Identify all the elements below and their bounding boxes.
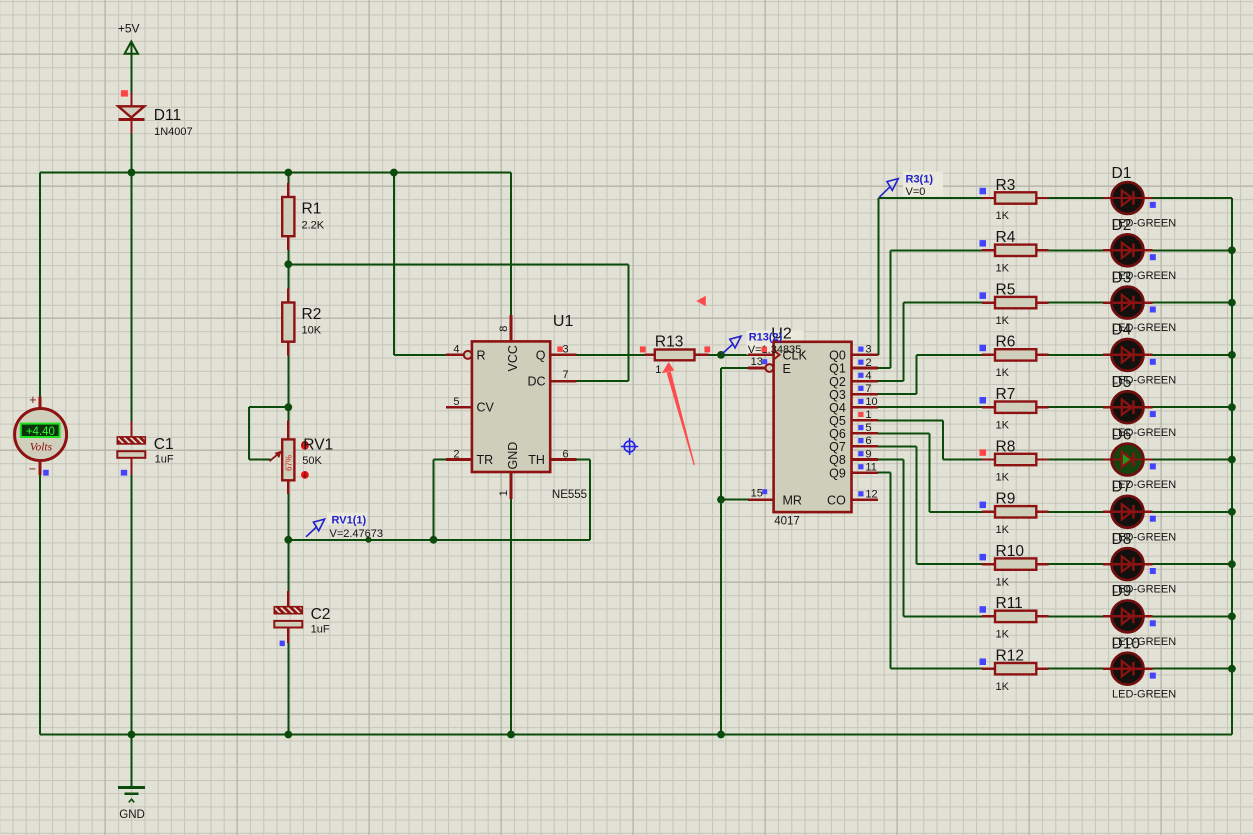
marker R8 [980,449,987,456]
junction right rail row D5 [1228,403,1236,411]
wire MR horizontal [721,499,748,501]
junction top rail / R1 [284,169,292,177]
red annotation arrow [662,362,695,466]
LED D5 [1103,374,1176,439]
wire D7 to right rail [1152,511,1232,513]
svg-text:CV: CV [477,401,495,415]
wire R6 to D4 [1049,354,1104,356]
LED D6 [1103,426,1176,491]
svg-text:GND: GND [119,809,145,821]
svg-text:RV1(1): RV1(1) [332,514,367,526]
capacitor C2 [274,591,330,643]
junction R13 / CLK probe [717,351,725,359]
wire TH branch vertical [589,460,591,540]
marker blue D3 [1150,307,1156,313]
junction E-MR line [717,496,725,504]
wire bottom rail [40,734,1232,736]
svg-text:8: 8 [498,326,510,332]
svg-text:Q9: Q9 [829,466,846,480]
svg-text:D9: D9 [1112,583,1132,600]
svg-text:2: 2 [453,449,459,461]
svg-text:2: 2 [865,357,871,369]
resistor R4 [982,229,1048,274]
marker U2 Q3 [858,386,863,391]
probe R13(2) background [747,331,804,355]
svg-text:12: 12 [865,488,877,500]
wire D8 to right rail [1152,563,1232,565]
svg-text:GND: GND [506,442,520,470]
junction right rail row D4 [1228,351,1236,359]
wire D6 to right rail [1152,459,1232,461]
svg-text:50K: 50K [302,455,322,467]
svg-text:D10: D10 [1112,636,1141,653]
svg-text:R12: R12 [996,648,1024,665]
marker U2 Q7 [858,438,863,443]
marker blue D2 [1150,254,1156,260]
cursor origin marker [621,438,638,455]
junction right rail row D8 [1228,560,1236,568]
wire C2 bottom to bottom rail [287,643,289,734]
wire right rail [1231,198,1233,735]
wire U2 Q5 to R8 [878,419,943,421]
wire D9 to right rail [1152,615,1232,617]
wire D11 to top rail [131,134,133,173]
marker blue D6 [1150,463,1156,469]
svg-text:1K: 1K [996,367,1010,379]
svg-text:R10: R10 [996,543,1025,560]
wire D2 to right rail [1152,249,1232,251]
wire R8 to D6 [1049,459,1104,461]
wire R3 to D1 [1049,197,1104,199]
marker blue D5 [1150,411,1156,417]
svg-text:D2: D2 [1112,217,1132,234]
svg-text:+4.40: +4.40 [26,426,55,438]
svg-text:4: 4 [865,370,871,382]
svg-text:R11: R11 [996,595,1023,612]
svg-text:R: R [477,348,486,362]
svg-text:D8: D8 [1112,531,1132,548]
svg-text:13: 13 [751,356,763,368]
svg-text:11: 11 [865,461,876,473]
marker R7 [980,397,987,404]
resistor R12 [982,648,1048,693]
counter U2 4017 [748,325,878,527]
wire RV1 bottom to C2 junction [287,494,289,540]
svg-text:Q7: Q7 [829,440,846,454]
svg-text:R4: R4 [996,229,1016,246]
svg-text:1: 1 [498,490,510,496]
svg-text:Q0: Q0 [829,349,846,363]
svg-text:1: 1 [655,364,661,376]
svg-text:Volts: Volts [30,441,53,453]
wire R7 to D5 [1049,406,1104,408]
svg-text:10: 10 [865,396,877,408]
marker blue U2 pin13 [762,359,767,364]
svg-text:VCC: VCC [506,345,520,371]
marker red U1 pin3 [557,346,563,352]
junction right rail row D9 [1228,613,1236,621]
marker blue D10 [1150,673,1156,679]
svg-text:1K: 1K [996,419,1010,431]
junction bottom rail / GND [128,731,136,739]
junction right rail row D10 [1228,665,1236,673]
junction right rail row D2 [1228,246,1236,254]
svg-text:D5: D5 [1112,374,1132,391]
junction R1-R2 / DC line [284,260,292,268]
marker R9 [980,502,987,509]
svg-text:Q4: Q4 [829,401,846,415]
wire E-MR vertical to bottom rail [720,368,722,735]
wire U2 Q9 to R12 [878,472,891,474]
marker R12 [980,659,987,666]
wire left rail lower [39,475,41,735]
wire U2 Q7 to R10 [878,445,917,447]
svg-text:1uF: 1uF [311,623,330,635]
svg-text:D1: D1 [1112,165,1132,182]
LED D1 [1103,165,1176,230]
wire R1-R2 junction to DC branch [288,263,628,265]
svg-text:+5V: +5V [118,21,140,35]
svg-text:C2: C2 [311,606,331,623]
resistor R1 [282,183,325,250]
svg-text:E: E [783,362,791,376]
resistor R9 [982,491,1048,536]
svg-text:R6: R6 [996,334,1016,351]
probe dot RV1(1) [366,537,372,543]
resistor R8 [982,438,1048,483]
resistor R10 [982,543,1048,588]
svg-text:R3(1): R3(1) [906,174,934,186]
svg-text:Q2: Q2 [829,375,846,389]
svg-text:1K: 1K [996,681,1010,693]
wire R1 bottom to junction [287,250,289,264]
junction bottom rail / U1 GND [507,731,515,739]
svg-text:1K: 1K [996,576,1010,588]
svg-text:R1: R1 [302,200,322,217]
svg-text:Q5: Q5 [829,414,846,428]
resistor R11 [982,595,1048,640]
LED D4 [1103,322,1176,387]
wire U2 Q2 to R5 [878,380,904,382]
svg-text:7: 7 [865,383,871,395]
wire D1 to right rail [1152,197,1232,199]
svg-text:R7: R7 [996,386,1016,403]
svg-text:DC: DC [527,375,545,389]
svg-text:RV1: RV1 [303,436,333,453]
wire +5V to D11 [130,41,132,92]
svg-text:R2: R2 [302,306,322,323]
svg-text:D6: D6 [1112,426,1132,443]
svg-text:NE555: NE555 [552,489,587,501]
marker U2 Q9 [858,464,863,469]
marker R5 [980,292,987,299]
resistor R6 [982,334,1048,379]
junction top rail / reset line [390,169,398,177]
svg-text:9: 9 [865,448,871,460]
svg-text:2.2K: 2.2K [302,220,325,232]
resistor R7 [982,386,1048,431]
svg-text:4017: 4017 [774,515,800,527]
marker R11 [980,606,987,613]
wire U1 pin1 GND to bottom rail [510,499,512,735]
wire R2 bottom to RV1 junction [287,356,289,408]
svg-text:R9: R9 [996,491,1016,508]
svg-text:Q3: Q3 [829,388,846,402]
LED D10 [1103,636,1176,701]
svg-text:6: 6 [563,449,569,461]
svg-text:D4: D4 [1112,322,1132,339]
junction bottom rail / C2 [284,731,292,739]
wire R5 to D3 [1049,302,1104,304]
resistor R3 [982,177,1048,222]
svg-text:7: 7 [563,369,569,381]
svg-text:CO: CO [827,494,846,508]
marker blue C1 [121,470,127,476]
junction top rail / D11 [128,169,136,177]
LED D2 [1103,217,1176,282]
wire R13 to CLK junction [709,354,748,356]
junction right rail row D6 [1228,456,1236,464]
marker U2 Q0 [858,347,863,352]
diode D11 [118,92,192,138]
wire top rail [40,172,511,174]
wire U1 pin8 VCC [510,173,512,316]
svg-text:1K: 1K [996,629,1010,641]
marker red D11 [121,90,128,96]
marker U2 Q2 [858,373,863,378]
wire R12 to D10 [1049,668,1104,670]
svg-text:R3: R3 [996,177,1016,194]
svg-text:1K: 1K [996,210,1010,222]
marker R3 [980,188,987,195]
junction RV1 bottom / C2 [284,536,292,544]
marker R4 [980,240,987,247]
wire DC branch to U1 pin7 [576,380,628,382]
svg-text:10K: 10K [302,325,322,337]
svg-text:Q8: Q8 [829,453,846,467]
op-amp timer U1 NE555 [446,313,587,501]
marker blue D8 [1150,568,1156,574]
svg-text:3: 3 [563,344,569,356]
marker blue voltmeter [43,470,49,476]
voltage probe R3(1) [879,172,943,199]
power +5V symbol [118,21,140,54]
svg-text:15: 15 [751,488,763,500]
wire U2 Q1 to R4 [878,367,891,369]
svg-text:R8: R8 [996,438,1016,455]
wire reset line to U1 pin4 [394,354,446,356]
marker U2 Q1 [858,360,863,365]
wire C2 junction to C2 top [287,540,289,591]
svg-text:LED-GREEN: LED-GREEN [1112,688,1176,700]
wire R1 top [287,173,289,184]
wire D3 to right rail [1152,302,1232,304]
wire U2 Q6 to R9 [878,432,930,434]
wire GND stem [131,735,133,788]
junction right rail row D3 [1228,299,1236,307]
junction RV1 top [284,403,292,411]
svg-text:U1: U1 [553,313,574,330]
wire reset line vertical [393,173,395,355]
wire U1 pin2 TR branch [434,459,446,461]
marker blue D4 [1150,359,1156,365]
svg-text:MR: MR [783,494,802,508]
voltage probe R13(2) [723,332,805,357]
marker red R13 probe value [762,347,768,353]
LED D3 [1103,269,1176,334]
svg-text:1K: 1K [996,263,1010,275]
voltage probe RV1(1) [306,513,383,540]
svg-text:5: 5 [865,422,871,434]
resistor R2 [282,289,322,356]
marker U2 Q6 [858,425,863,430]
svg-text:Q: Q [536,348,546,362]
svg-text:D11: D11 [154,107,181,124]
ground symbol [118,787,145,821]
marker blue U2 pin15 [762,489,767,494]
marker R6 [980,345,987,352]
marker blue C2 [280,641,285,647]
svg-text:R5: R5 [996,281,1016,298]
wire U1 pin3 to R13 [576,354,644,356]
wire left rail upper [39,173,41,397]
svg-text:67%: 67% [284,455,293,471]
resistor R13 [645,334,709,376]
wire U2 Q8 to R11 [878,459,904,461]
junction TR branch [430,536,438,544]
svg-text:1K: 1K [996,315,1010,327]
wire R11 to D9 [1049,615,1104,617]
wire U2 Q0 to R3 [877,354,880,356]
wire RV1 to TH horizontal [288,539,590,541]
wire R4 to D2 [1049,249,1104,251]
svg-text:V=1.34835.: V=1.34835. [748,344,805,356]
voltmeter +4.40 [15,393,67,476]
svg-text:TH: TH [528,453,545,467]
wire DC branch vertical [627,264,629,381]
marker red R13 right [704,346,710,352]
svg-text:TR: TR [477,453,494,467]
svg-text:Q6: Q6 [829,427,846,441]
wire U2 Q3 to R6 [878,393,917,395]
LED D9 [1103,583,1176,648]
svg-text:1N4007: 1N4007 [154,126,193,138]
LED D7 [1103,479,1176,544]
svg-text:V=2.47673: V=2.47673 [330,528,384,540]
marker blue D9 [1150,620,1156,626]
svg-text:1: 1 [865,409,871,421]
wire R9 to D7 [1049,511,1104,513]
svg-text:−: − [29,462,36,476]
marker U2 Q5 [858,412,863,417]
svg-text:5: 5 [453,396,459,408]
svg-text:Q1: Q1 [829,362,846,376]
wire R10 to D8 [1049,563,1104,565]
svg-text:1K: 1K [996,472,1010,484]
svg-text:D7: D7 [1112,479,1132,496]
wire junction to R2 top [287,264,289,288]
LED D8 [1103,531,1176,596]
wire U2 Q4 to R7 [878,406,982,408]
marker U2 Q8 [858,451,863,456]
junction right rail row D7 [1228,508,1236,516]
junction bottom rail / U2 [717,731,725,739]
svg-text:C1: C1 [154,436,174,453]
wire RV1 junction to RV1 top [287,407,289,420]
wire C1 column lower [131,458,133,735]
resistor R5 [982,281,1048,326]
svg-text:3: 3 [865,344,871,356]
svg-text:R13(2): R13(2) [749,332,783,344]
wire C1 column upper [131,173,133,422]
wire E pin horizontal [721,367,748,369]
svg-text:4: 4 [453,344,459,356]
wire D4 to right rail [1152,354,1232,356]
svg-text:1uF: 1uF [155,454,174,466]
svg-text:V=0: V=0 [906,186,926,198]
marker blue U2 pin12 [858,491,863,496]
svg-text:6: 6 [865,435,871,447]
marker U2 Q4 [858,399,863,404]
svg-text:R13: R13 [655,334,683,351]
wire D10 to right rail [1152,668,1232,670]
svg-text:D3: D3 [1112,269,1132,286]
svg-text:1K: 1K [996,524,1010,536]
capacitor C1 [117,421,174,475]
marker R10 [980,554,987,561]
red triangle marker [696,296,706,307]
wire U1 pin6 TH [576,459,590,461]
svg-text:+: + [29,393,36,407]
marker blue D7 [1150,516,1156,522]
marker red R13 left [640,346,646,352]
marker blue D1 [1150,202,1156,208]
potentiometer RV1 [249,407,333,494]
wire D5 to right rail [1152,406,1232,408]
